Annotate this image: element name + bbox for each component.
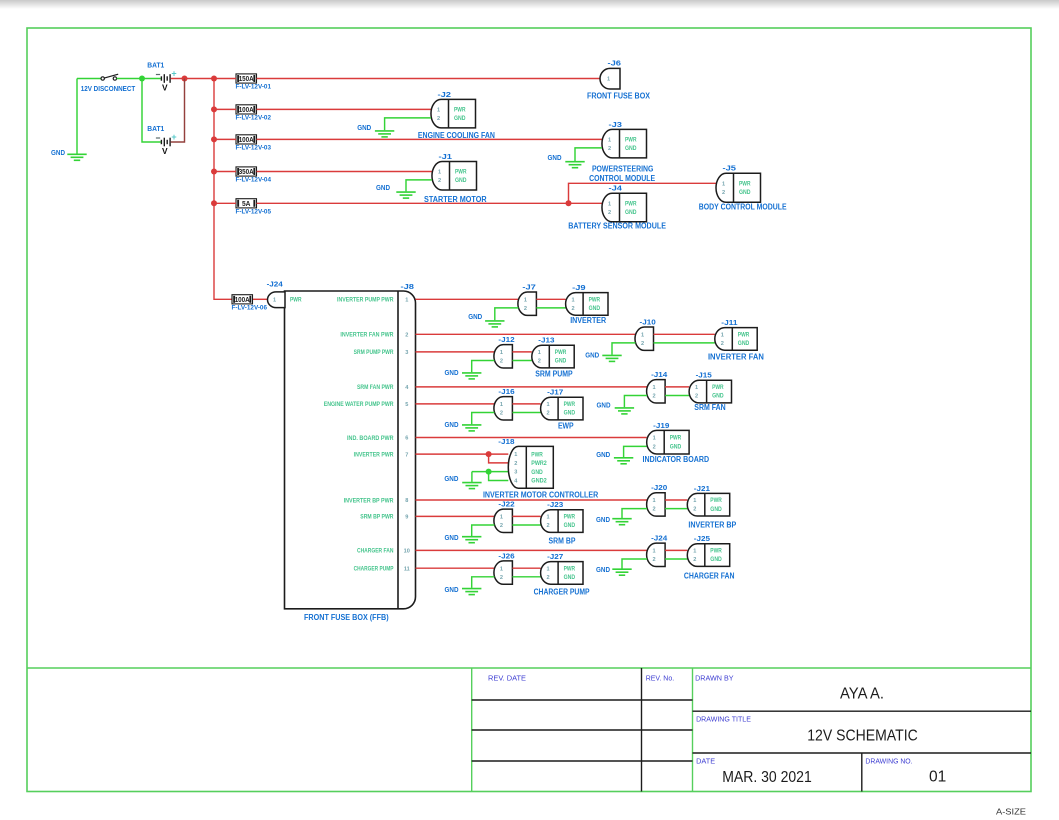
svg-text:GND: GND (597, 401, 611, 410)
ground (J24) (612, 569, 631, 575)
svg-text:1: 1 (608, 201, 611, 207)
svg-text:10: 10 (404, 549, 410, 555)
connector J12 (male) (494, 345, 512, 368)
svg-text:MAR. 30 2021: MAR. 30 2021 (722, 769, 812, 786)
svg-text:INVERTER BP PWR: INVERTER BP PWR (344, 497, 394, 504)
wire: J24-J25 gnd (665, 558, 687, 560)
wire: FFB pin4 to J14 (416, 386, 648, 388)
svg-text:-J7: -J7 (522, 284, 536, 291)
svg-text:1: 1 (607, 77, 610, 83)
wire: J10-J11 pwr (654, 333, 715, 335)
wire: switch to BAT1 negative (117, 78, 161, 80)
connector J3 (female) (602, 129, 647, 158)
svg-text:CHARGER PUMP: CHARGER PUMP (534, 586, 590, 596)
wire: J10-J11 gnd (654, 342, 715, 344)
wire: J20 pin2 to ground (622, 509, 647, 518)
wire: bus to fuse (214, 138, 236, 140)
wire: J19 pin2 to ground (624, 446, 647, 457)
svg-text:1: 1 (721, 332, 724, 338)
svg-text:2: 2 (547, 523, 550, 529)
wire: bus to fuse (214, 171, 236, 173)
svg-text:GND: GND (625, 209, 637, 216)
svg-text:2: 2 (500, 523, 503, 529)
svg-text:1: 1 (438, 170, 441, 176)
svg-text:2: 2 (641, 341, 644, 347)
svg-text:+: + (171, 69, 176, 79)
svg-text:2: 2 (653, 557, 656, 563)
svg-text:2: 2 (653, 445, 656, 451)
svg-text:2: 2 (500, 411, 503, 417)
svg-text:1: 1 (653, 549, 656, 555)
wire: FFB pin9 to J22 (416, 515, 495, 517)
ground (J20) (612, 519, 631, 525)
svg-text:PWR2: PWR2 (531, 460, 547, 467)
ground (J22) (462, 537, 481, 543)
wire: J16-J17 gnd (512, 412, 540, 414)
svg-text:-J24: -J24 (651, 536, 667, 543)
svg-text:PWR: PWR (670, 435, 682, 442)
connector J2 (female) (431, 99, 476, 128)
wire: fuse6 to J24 (253, 298, 268, 300)
wire: FFB pin7 to J18 pin1 (416, 453, 509, 455)
wire: tap to J18 pin2 (489, 454, 509, 463)
svg-text:-J5: -J5 (723, 166, 737, 173)
ground (J16) (462, 425, 481, 431)
wire: J1 pin2 to ground (406, 180, 432, 192)
ground (J3) (565, 162, 584, 168)
svg-text:1: 1 (538, 350, 541, 356)
ground (J19) (614, 458, 633, 464)
connector J24 (FFB input) (268, 292, 286, 308)
wire: J12-J13 pwr (512, 351, 531, 353)
svg-text:GND: GND (589, 305, 601, 312)
connector J10 (male) (635, 327, 654, 350)
wire: J14-J15 gnd (665, 395, 689, 397)
svg-text:2: 2 (547, 411, 550, 417)
svg-text:3: 3 (514, 470, 517, 476)
connector J9 (female) (566, 293, 608, 316)
wire: FFB pin5 to J16 (416, 403, 495, 405)
connector J25 (female) (687, 544, 729, 567)
wire: J12-J13 gnd (512, 360, 531, 362)
svg-text:-J10: -J10 (640, 319, 656, 326)
svg-text:-J26: -J26 (498, 553, 514, 560)
wire: J24-J25 pwr (665, 549, 687, 551)
svg-text:PWR: PWR (710, 548, 722, 555)
svg-text:2: 2 (438, 178, 441, 184)
wire: J16-J17 pwr (512, 403, 540, 405)
connector J1 (female) (432, 162, 477, 191)
battery BAT1 (161, 74, 170, 83)
svg-text:DRAWING NO.: DRAWING NO. (865, 759, 912, 766)
connector J4 (female) (602, 193, 647, 222)
svg-text:1: 1 (653, 498, 656, 504)
svg-text:1: 1 (500, 515, 503, 521)
svg-text:-J20: -J20 (651, 485, 667, 492)
svg-text:-J13: -J13 (538, 338, 554, 345)
svg-text:DATE: DATE (696, 759, 715, 766)
svg-text:SRM PUMP: SRM PUMP (535, 369, 573, 379)
connector J17 (female) (541, 397, 583, 420)
wire: J2 pin2 to ground (385, 118, 431, 130)
svg-text:CHARGER FAN: CHARGER FAN (357, 548, 394, 555)
svg-text:1: 1 (653, 385, 656, 391)
connector J27 (female) (541, 562, 583, 585)
switch S1 12V DISCONNECT (101, 74, 118, 80)
svg-text:2: 2 (608, 146, 611, 152)
svg-text:BATTERY SENSOR MODULE: BATTERY SENSOR MODULE (568, 221, 666, 231)
wire: J16 pin2 to ground (472, 413, 495, 425)
svg-text:11: 11 (404, 566, 410, 572)
svg-text:SRM FAN: SRM FAN (694, 402, 725, 412)
fuse F-LV-12V-06 100A (232, 295, 253, 304)
svg-text:12V DISCONNECT: 12V DISCONNECT (81, 84, 136, 93)
connector J24 (male) (647, 543, 666, 566)
svg-text:1: 1 (653, 436, 656, 442)
svg-text:GND: GND (710, 506, 722, 513)
wire: J22-J23 pwr (512, 515, 540, 517)
wire: parallel link to BAT1(2) positive (171, 79, 185, 143)
junction (bus tap) (211, 169, 217, 175)
svg-text:-J24: -J24 (267, 282, 283, 289)
wire: J10 pin2 to ground (612, 343, 636, 355)
svg-text:PWR: PWR (564, 565, 576, 572)
ground (J12) (462, 373, 481, 379)
svg-text:IND. BOARD PWR: IND. BOARD PWR (347, 435, 394, 442)
svg-text:2: 2 (538, 359, 541, 365)
svg-text:F-LV-12V-01: F-LV-12V-01 (236, 84, 272, 91)
svg-text:-J2: -J2 (438, 92, 452, 99)
svg-text:INVERTER BP: INVERTER BP (688, 519, 736, 529)
svg-text:INVERTER FAN: INVERTER FAN (708, 352, 764, 362)
svg-text:1: 1 (524, 297, 527, 303)
svg-text:GND: GND (564, 574, 576, 581)
svg-text:GND: GND (468, 312, 482, 321)
svg-text:GND: GND (564, 522, 576, 529)
wire: FFB pin3 to J12 (416, 351, 495, 353)
svg-text:DRAWN BY: DRAWN BY (695, 675, 734, 682)
svg-text:INVERTER FAN PWR: INVERTER FAN PWR (340, 332, 394, 339)
wire: main 12V bus (214, 79, 232, 300)
svg-text:-J22: -J22 (498, 502, 514, 509)
fuse F-LV-12V-02 100A (236, 105, 257, 114)
svg-text:1: 1 (273, 298, 276, 304)
svg-text:GND: GND (357, 123, 371, 132)
svg-text:100A: 100A (235, 297, 250, 304)
svg-text:1: 1 (547, 515, 550, 521)
connector J8 (FFB pin column) (397, 291, 399, 609)
svg-text:2: 2 (524, 306, 527, 312)
svg-text:PWR: PWR (455, 169, 467, 176)
svg-text:1: 1 (514, 452, 517, 458)
svg-text:-J19: -J19 (653, 423, 669, 430)
svg-text:FRONT FUSE BOX: FRONT FUSE BOX (587, 91, 650, 101)
svg-text:2: 2 (721, 341, 724, 347)
svg-text:FRONT FUSE BOX (FFB): FRONT FUSE BOX (FFB) (304, 612, 389, 622)
svg-text:-J25: -J25 (694, 536, 710, 543)
svg-text:F-LV-12V-05: F-LV-12V-05 (236, 209, 272, 216)
svg-text:-J8: -J8 (401, 284, 415, 291)
wire: J20-J21 pwr (665, 499, 687, 501)
front fuse box FFB (block) (285, 291, 416, 609)
wire: J22 pin2 to ground (472, 525, 495, 536)
wire: BAT1 positive to bus (171, 78, 214, 80)
svg-text:V: V (162, 146, 168, 156)
svg-text:1: 1 (641, 332, 644, 338)
ground (J26) (462, 589, 481, 595)
svg-text:GND: GND (445, 585, 459, 594)
svg-text:GND: GND (51, 148, 65, 157)
wire: FFB pin1 to J7 (416, 298, 519, 300)
svg-text:GND: GND (454, 115, 466, 122)
svg-text:2: 2 (695, 394, 698, 400)
wire: J24 pin2 to ground (622, 559, 647, 569)
svg-text:1: 1 (693, 498, 696, 504)
svg-text:F-LV-12V-04: F-LV-12V-04 (236, 177, 272, 184)
ground (J14) (615, 408, 634, 414)
svg-text:2: 2 (500, 359, 503, 365)
svg-text:1: 1 (722, 181, 725, 187)
svg-text:+: + (171, 132, 176, 142)
svg-text:-J4: -J4 (609, 186, 623, 193)
junction (battery parallel tap) (182, 76, 188, 82)
svg-text:5A: 5A (242, 201, 251, 208)
junction (green) (139, 76, 145, 82)
svg-text:SRM BP PWR: SRM BP PWR (360, 514, 394, 521)
junction (J18 pwr tap) (486, 451, 492, 457)
svg-text:GND: GND (712, 393, 724, 400)
svg-text:GND: GND (445, 368, 459, 377)
connector J23 (female) (541, 510, 583, 533)
svg-text:1: 1 (608, 138, 611, 144)
wire: J12 pin2 to ground (472, 361, 495, 373)
wire: branch to BAT1(2) negative (142, 79, 161, 143)
svg-text:1: 1 (695, 385, 698, 391)
svg-text:-J12: -J12 (498, 337, 514, 344)
svg-text:EWP: EWP (558, 420, 574, 430)
junction (J4/J5 tap) (566, 200, 572, 206)
svg-text:2: 2 (693, 507, 696, 513)
fuse F-LV-12V-05 5A (236, 199, 257, 208)
svg-text:GND: GND (444, 474, 458, 483)
wire: fuse3 to J3 (257, 138, 603, 140)
connector J20 (male) (647, 493, 665, 516)
wire: FFB pin10 to J24 (416, 549, 648, 551)
svg-text:1: 1 (500, 402, 503, 408)
wire: J20-J21 gnd (665, 508, 687, 510)
wire: fuse5 to J4 (257, 202, 603, 204)
ground (J18) (462, 483, 481, 489)
svg-text:INVERTER PUMP PWR: INVERTER PUMP PWR (337, 297, 394, 304)
connector J15 (female) (689, 380, 731, 403)
svg-text:PWR: PWR (738, 332, 750, 339)
connector J14 (male) (647, 380, 666, 403)
svg-text:GND: GND (445, 533, 459, 542)
svg-text:2: 2 (722, 190, 725, 196)
svg-text:CONTROL MODULE: CONTROL MODULE (589, 173, 655, 183)
svg-text:GND: GND (548, 153, 562, 162)
svg-text:SRM PUMP PWR: SRM PUMP PWR (354, 349, 394, 356)
svg-text:REV. DATE: REV. DATE (488, 675, 526, 682)
svg-text:-J16: -J16 (498, 389, 514, 396)
connector J21 (female) (687, 493, 729, 516)
svg-text:-J1: -J1 (439, 154, 453, 161)
svg-text:-J15: -J15 (696, 373, 712, 380)
svg-text:1: 1 (500, 350, 503, 356)
svg-text:7: 7 (405, 452, 408, 458)
wire: J7 pin2 to ground (495, 308, 519, 320)
fuse F-LV-12V-03 100A (236, 135, 257, 144)
svg-text:CHARGER FAN: CHARGER FAN (684, 571, 735, 581)
svg-text:2: 2 (608, 210, 611, 216)
svg-text:350A: 350A (239, 169, 254, 176)
svg-text:ENGINE COOLING FAN: ENGINE COOLING FAN (418, 130, 495, 140)
svg-text:-J14: -J14 (651, 372, 667, 379)
svg-text:GND: GND (596, 515, 610, 524)
svg-text:2: 2 (693, 557, 696, 563)
svg-text:2: 2 (514, 461, 517, 467)
wire: fuse1 to J6 (257, 78, 602, 80)
svg-text:GND: GND (670, 444, 682, 451)
svg-text:INVERTER MOTOR CONTROLLER: INVERTER MOTOR CONTROLLER (483, 489, 599, 499)
svg-text:1: 1 (437, 108, 440, 114)
svg-text:BODY CONTROL MODULE: BODY CONTROL MODULE (699, 202, 787, 212)
svg-text:2: 2 (547, 575, 550, 581)
svg-text:F-LV-12V-03: F-LV-12V-03 (236, 145, 272, 152)
svg-text:1: 1 (572, 297, 575, 303)
svg-text:150A: 150A (239, 76, 254, 83)
svg-text:DRAWING TITLE: DRAWING TITLE (696, 716, 751, 723)
svg-text:8: 8 (405, 498, 408, 504)
junction (bus tap) (211, 200, 217, 206)
svg-text:PWR: PWR (454, 107, 466, 114)
svg-text:BAT1: BAT1 (147, 124, 164, 133)
svg-text:1: 1 (405, 298, 408, 304)
svg-text:STARTER MOTOR: STARTER MOTOR (424, 194, 487, 204)
svg-text:2: 2 (572, 306, 575, 312)
svg-text:SRM FAN PWR: SRM FAN PWR (357, 384, 394, 391)
svg-text:SRM BP: SRM BP (549, 535, 576, 545)
wire: FFB pin6 to J19 (416, 437, 647, 439)
connector J18 (female) (508, 446, 553, 488)
svg-text:GND: GND (585, 351, 599, 360)
svg-text:01: 01 (929, 769, 946, 786)
svg-text:BAT1: BAT1 (147, 61, 164, 70)
connector J22 (male) (494, 509, 513, 532)
svg-text:-J23: -J23 (547, 502, 563, 509)
svg-text:9: 9 (405, 515, 408, 521)
svg-text:-J17: -J17 (547, 390, 563, 397)
wire: GND riser to disconnect switch (77, 78, 102, 80)
ground (J10) (602, 355, 621, 361)
svg-text:F-LV-12V-06: F-LV-12V-06 (232, 305, 268, 312)
svg-text:PWR: PWR (710, 497, 722, 504)
svg-text:2: 2 (437, 116, 440, 122)
svg-text:PWR: PWR (564, 401, 576, 408)
wire: bus to fuse (214, 108, 236, 110)
svg-text:GND: GND (739, 189, 751, 196)
title block (27, 667, 1031, 669)
connector J19 (female) (647, 430, 689, 454)
svg-text:-J3: -J3 (609, 122, 623, 129)
wire: bus to fuse (214, 78, 236, 80)
svg-text:PWR: PWR (712, 384, 724, 391)
wire: J26-J27 pwr (512, 567, 540, 569)
svg-text:1: 1 (500, 566, 503, 572)
wire: ground stem (76, 79, 78, 154)
wire: FFB pin2 to J10 (416, 333, 636, 335)
svg-text:GND: GND (596, 450, 610, 459)
svg-text:PWR: PWR (625, 201, 637, 208)
wire: J14-J15 pwr (665, 386, 689, 388)
wire: J14 pin2 to ground (624, 396, 647, 408)
svg-text:ENGINE WATER PUMP PWR: ENGINE WATER PUMP PWR (324, 401, 394, 408)
wire: fuse2 to J2 (257, 108, 432, 110)
svg-text:1: 1 (547, 402, 550, 408)
svg-text:GND: GND (445, 420, 459, 429)
connector J13 (female) (532, 345, 574, 368)
svg-text:GND: GND (564, 410, 576, 417)
wire: J3 pin2 to ground (575, 148, 602, 161)
svg-text:GND2: GND2 (531, 478, 547, 485)
svg-text:-J9: -J9 (572, 285, 586, 292)
junction (J18 gnd tap, green) (486, 469, 492, 475)
svg-text:-J6: -J6 (608, 60, 622, 67)
svg-text:-J18: -J18 (498, 439, 514, 446)
connector J26 (male) (494, 561, 512, 584)
ground (battery negative) (67, 154, 86, 160)
svg-text:GND: GND (555, 358, 567, 365)
svg-text:2: 2 (653, 507, 656, 513)
connector J11 (female) (715, 328, 757, 351)
svg-text:GND: GND (531, 469, 543, 476)
svg-text:GND: GND (710, 556, 722, 563)
ground (J7) (485, 321, 504, 327)
svg-text:PWR: PWR (564, 514, 576, 521)
svg-text:PWR: PWR (290, 297, 302, 304)
connector J6 (600, 68, 620, 89)
connector J16 (male) (494, 397, 513, 420)
svg-text:PWR: PWR (739, 181, 751, 188)
svg-text:GND: GND (596, 565, 610, 574)
svg-text:GND: GND (376, 183, 390, 192)
svg-text:V: V (162, 83, 168, 93)
fuse F-LV-12V-04 350A (236, 167, 257, 176)
svg-text:REV. No.: REV. No. (646, 675, 675, 682)
svg-text:2: 2 (405, 333, 408, 339)
svg-text:12V SCHEMATIC: 12V SCHEMATIC (807, 727, 918, 744)
svg-text:2: 2 (653, 394, 656, 400)
wire: J7-J9 gnd (536, 307, 565, 309)
svg-text:GND: GND (738, 340, 750, 347)
wire: tap to J5 (569, 183, 717, 203)
svg-text:F-LV-12V-02: F-LV-12V-02 (236, 115, 272, 122)
svg-text:CHARGER PUMP: CHARGER PUMP (354, 566, 394, 573)
wire: FFB pin8 to J20 (416, 499, 648, 501)
wire: FFB pin11 to J26 (416, 567, 495, 569)
wire: bus to fuse (214, 202, 236, 204)
svg-text:1: 1 (693, 549, 696, 555)
ground (J2) (375, 131, 394, 137)
svg-text:GND: GND (625, 145, 637, 152)
svg-text:-J11: -J11 (721, 320, 737, 327)
svg-text:5: 5 (405, 402, 408, 408)
svg-text:INVERTER PWR: INVERTER PWR (354, 451, 394, 458)
junction (bus top) (211, 76, 217, 82)
svg-text:2: 2 (500, 575, 503, 581)
svg-text:1: 1 (547, 566, 550, 572)
fuse F-LV-12V-01 150A (236, 74, 257, 83)
